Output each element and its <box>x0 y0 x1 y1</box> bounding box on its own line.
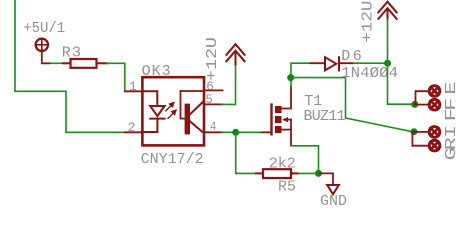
svg-text:+12U: +12U <box>359 1 376 43</box>
pad upper 2 <box>429 99 440 110</box>
svg-text:CNY17/2: CNY17/2 <box>141 151 204 168</box>
svg-text:F: F <box>442 108 460 121</box>
wire D6 to +12V vertical <box>354 62 388 64</box>
wire +5V to R3 <box>42 62 64 63</box>
opto pin 2 stub <box>125 131 143 133</box>
opto LED <box>142 91 164 132</box>
resistor R3 <box>63 59 108 68</box>
svg-text:+12U: +12U <box>204 37 221 81</box>
mosfet T1 <box>272 87 292 146</box>
wire left vertical from top <box>15 0 125 132</box>
wire source to R5 node <box>291 146 319 170</box>
pad lower 2 <box>429 140 440 151</box>
labels GRIFFE rotated letters <box>442 82 460 161</box>
wire pin4 to gate <box>236 131 262 133</box>
gnd connection <box>320 173 333 185</box>
supply +12V top right symbol <box>378 2 396 20</box>
wire pin4 down to R5 <box>236 132 256 173</box>
supply +5V/1 symbol <box>36 39 48 63</box>
svg-text:2k2: 2k2 <box>269 156 296 173</box>
junction pads upper <box>411 101 418 108</box>
svg-text:R5: R5 <box>278 179 296 196</box>
supply +12V mid symbol <box>226 44 244 64</box>
svg-text:OK3: OK3 <box>142 63 172 80</box>
wire +12V rail down to pads <box>388 19 412 104</box>
opto light arrows <box>166 103 176 119</box>
supply pin stub <box>42 62 49 64</box>
opto pin 1 stub <box>125 90 143 92</box>
svg-text:BUZ11: BUZ11 <box>304 108 346 125</box>
junction drain <box>287 74 294 81</box>
wire R5 to junction <box>299 172 316 174</box>
ground symbol <box>327 185 339 194</box>
svg-text:GND: GND <box>320 193 347 210</box>
opto pin 4 stub <box>204 131 223 133</box>
svg-text:I: I <box>442 125 460 138</box>
opto phototransistor <box>181 91 205 134</box>
diode D6 <box>311 57 354 70</box>
svg-text:2: 2 <box>128 120 136 135</box>
wire R3 to opto pin1 <box>107 63 125 91</box>
gate pin stub <box>262 131 272 133</box>
svg-text:+5U/1: +5U/1 <box>23 20 65 37</box>
junction pin4 <box>232 129 239 136</box>
opto pin 5 stub <box>204 103 223 105</box>
wire pin4 net <box>222 131 232 133</box>
junction pads lower <box>411 128 418 135</box>
svg-text:1: 1 <box>129 79 137 94</box>
wire drain to pads (diagonal) <box>291 78 412 132</box>
wire drain node vertical <box>290 78 292 87</box>
svg-text:4: 4 <box>210 119 216 134</box>
opto pin 6 stub <box>204 89 223 91</box>
wire pin5 to +12V <box>222 64 236 104</box>
junction R5 right <box>315 170 322 177</box>
wire to pad upper group <box>415 91 429 104</box>
pad upper 1 <box>429 86 440 97</box>
pad lower 1 <box>429 127 440 138</box>
svg-text:E: E <box>442 82 460 95</box>
svg-text:1N4ØØ4: 1N4ØØ4 <box>341 65 398 82</box>
svg-text:G: G <box>442 147 460 160</box>
junction +12V rail <box>384 60 391 67</box>
wire to pad lower group <box>412 132 428 146</box>
svg-text:5: 5 <box>206 92 213 107</box>
optocoupler OK3 box <box>142 77 204 145</box>
svg-text:R3: R3 <box>62 45 82 62</box>
resistor R5 <box>256 169 299 178</box>
